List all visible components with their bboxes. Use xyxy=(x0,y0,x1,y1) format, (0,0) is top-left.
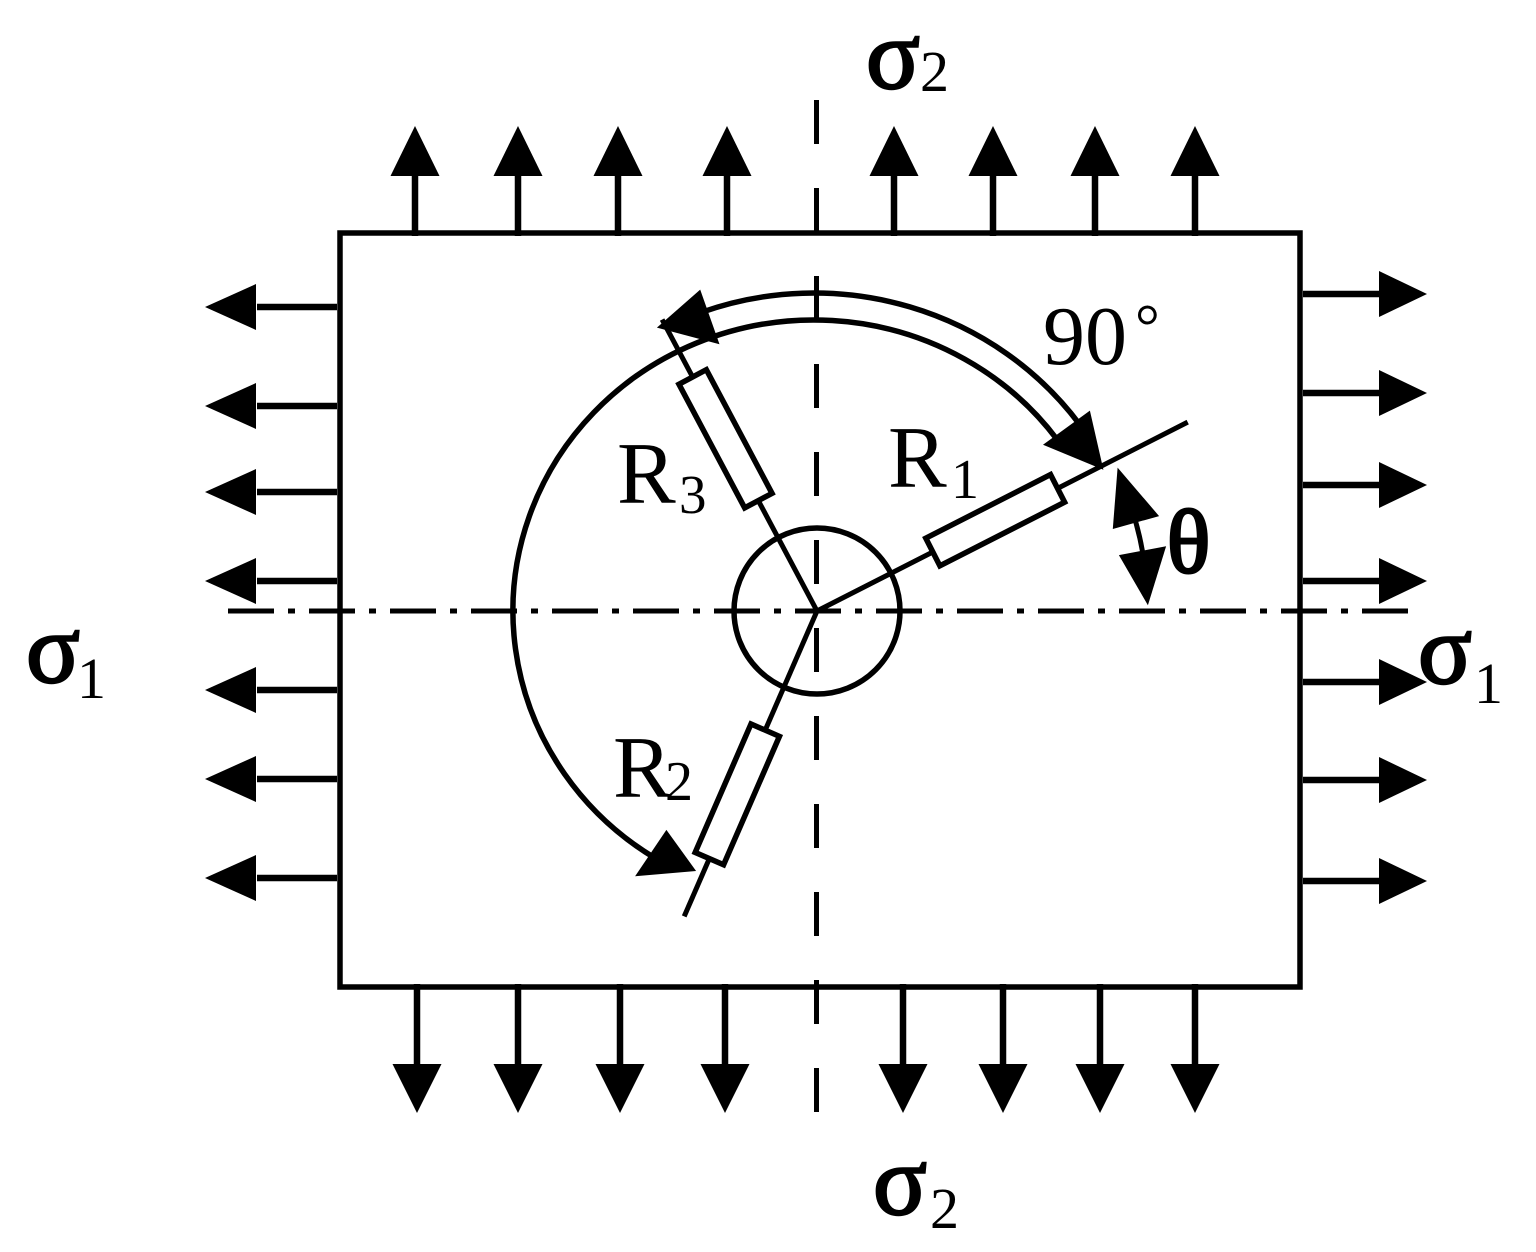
bottom stress arrow 4 xyxy=(701,984,750,1113)
svg-text:2: 2 xyxy=(665,751,693,813)
top stress arrow 3 xyxy=(594,126,643,236)
bottom stress arrow 7 xyxy=(1076,984,1125,1113)
sigma-1 label left xyxy=(26,593,106,711)
top stress arrow 1 xyxy=(391,126,440,236)
vertical dashed centerline xyxy=(814,100,819,1117)
svg-text:R: R xyxy=(613,720,672,817)
svg-text:1: 1 xyxy=(951,449,979,511)
top stress arrow 5 xyxy=(870,126,919,236)
svg-text:1: 1 xyxy=(77,646,106,711)
svg-text:θ: θ xyxy=(1167,493,1210,592)
svg-text:°: ° xyxy=(1135,293,1160,361)
90 degree label xyxy=(1043,290,1160,383)
bottom stress arrow 8 xyxy=(1171,984,1220,1113)
left stress arrow 4 xyxy=(205,558,337,604)
band arrowhead at R1 end xyxy=(1043,411,1103,470)
bottom stress arrow 3 xyxy=(596,984,645,1113)
bottom stress arrow 2 xyxy=(494,984,543,1113)
plate under biaxial stress xyxy=(340,233,1300,987)
left stress arrow 6 xyxy=(205,756,337,802)
strain gauge R3 xyxy=(679,370,772,508)
svg-text:90: 90 xyxy=(1043,290,1127,383)
bottom stress arrow 6 xyxy=(979,984,1028,1113)
sigma-1 label right xyxy=(1418,594,1503,716)
R2 gauge label xyxy=(613,720,693,817)
left stress arrow 1 xyxy=(205,284,337,330)
right stress arrow 7 xyxy=(1303,858,1427,904)
sigma-2 label top xyxy=(866,0,949,110)
arrowhead at R2 end of rotation arc xyxy=(635,830,696,876)
svg-text:σ: σ xyxy=(866,0,920,110)
svg-text:2: 2 xyxy=(920,39,949,104)
svg-text:R: R xyxy=(617,426,676,523)
theta dimension arc xyxy=(1127,495,1146,571)
svg-text:σ: σ xyxy=(1418,594,1472,705)
bottom stress arrow 1 xyxy=(393,984,442,1113)
top stress arrow 2 xyxy=(494,126,543,236)
right stress arrow 1 xyxy=(1303,271,1427,317)
right stress arrow 5 xyxy=(1303,659,1427,705)
theta arrowhead top xyxy=(1113,468,1159,529)
left stress arrow 3 xyxy=(205,469,337,515)
band arrowhead at R3 end xyxy=(657,290,720,345)
sigma-2 label bottom xyxy=(873,1125,959,1241)
rosette center circle xyxy=(734,528,900,694)
left stress arrow 2 xyxy=(205,383,337,429)
svg-text:3: 3 xyxy=(679,464,707,525)
right stress arrow 2 xyxy=(1303,370,1427,416)
theta arrowhead bottom xyxy=(1119,546,1166,605)
svg-text:2: 2 xyxy=(930,1176,959,1241)
R1 gauge label xyxy=(888,410,979,511)
svg-text:R: R xyxy=(888,410,947,507)
R1 gauge axis line xyxy=(817,422,1188,611)
R3 gauge label xyxy=(617,426,707,525)
inner rotation arc xyxy=(513,320,1058,858)
svg-text:σ: σ xyxy=(873,1125,927,1236)
R2 gauge axis line xyxy=(684,611,817,916)
theta angle label xyxy=(1167,493,1210,592)
top stress arrow 6 xyxy=(969,126,1018,236)
left stress arrow 7 xyxy=(205,855,337,901)
svg-text:σ: σ xyxy=(26,593,80,704)
strain gauge R2 xyxy=(695,724,779,865)
top stress arrow 7 xyxy=(1071,126,1120,236)
top stress arrow 4 xyxy=(703,126,752,236)
horizontal dash-dot centerline xyxy=(228,609,1421,614)
strain gauge R1 xyxy=(926,475,1065,566)
R3 gauge axis line xyxy=(662,320,817,611)
left stress arrow 5 xyxy=(205,667,337,713)
right stress arrow 3 xyxy=(1303,462,1427,508)
svg-text:1: 1 xyxy=(1474,651,1503,716)
top stress arrow 8 xyxy=(1171,126,1220,236)
outer 90-degree band arc xyxy=(702,293,1080,424)
bottom stress arrow 5 xyxy=(879,984,928,1113)
right stress arrow 4 xyxy=(1303,558,1427,604)
right stress arrow 6 xyxy=(1303,757,1427,803)
